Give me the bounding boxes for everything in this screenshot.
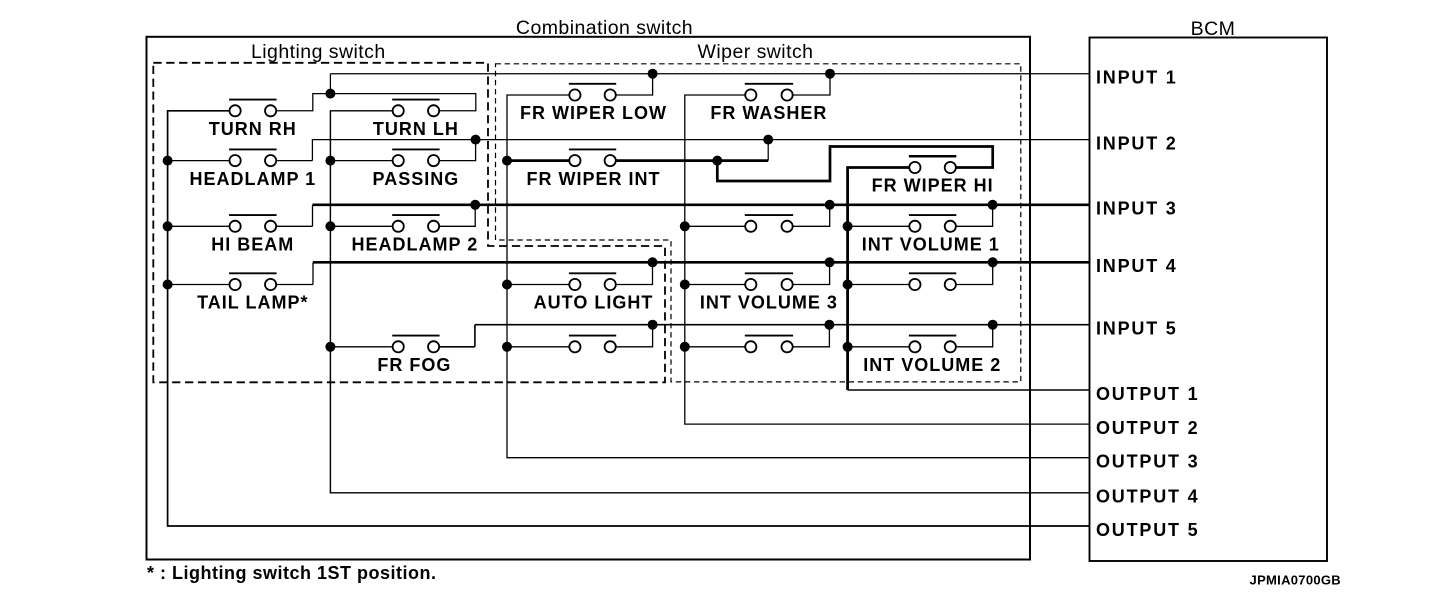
wire AUTO LIGHT leads (507, 284, 569, 286)
wire FR WASHER right lead to INPUT 1 (793, 74, 830, 95)
wire PASSING leads (330, 160, 392, 162)
switch HI BEAM (229, 215, 277, 232)
switch FR WIPER INT (569, 149, 616, 166)
svg-text:FR WIPER LOW: FR WIPER LOW (520, 103, 667, 123)
wire INPUT 3 line (313, 203, 1090, 206)
wire HEADLAMP 1 leads (168, 160, 230, 162)
svg-text:OUTPUT 3: OUTPUT 3 (1096, 452, 1199, 472)
node INT VOLUME 3 left (680, 280, 690, 290)
switch wiper col1 row5 (auto light) (569, 336, 616, 353)
wire INPUT 5 drop to FR FOG (474, 325, 476, 347)
svg-text:TURN RH: TURN RH (209, 119, 297, 139)
switch FR WASHER (745, 84, 793, 101)
wire bus to OUTPUT 4 (330, 111, 1089, 493)
wire FR FOG leads (330, 346, 392, 348)
svg-text:* : Lighting switch 1ST positi: * : Lighting switch 1ST position. (147, 563, 437, 583)
node HEADLAMP 2 left (325, 221, 335, 231)
svg-text:INPUT 5: INPUT 5 (1096, 319, 1178, 339)
Wiper switch dashed box (496, 64, 1021, 382)
node INT VOLUME 1 to INPUT 3 (988, 200, 998, 210)
wire OUTPUT 1 line (848, 389, 1090, 391)
wire INPUT 3 drop to HI BEAM (312, 205, 314, 227)
node HEADLAMP 1 left (163, 156, 173, 166)
svg-text:OUTPUT 4: OUTPUT 4 (1096, 487, 1199, 507)
node col1 row5 switch to INPUT 5 (648, 320, 658, 330)
switch AUTO LIGHT (569, 273, 616, 290)
wire bus to OUTPUT 5 (168, 111, 1090, 526)
svg-text:BCM: BCM (1191, 18, 1236, 40)
switch TURN RH (229, 100, 277, 117)
wire wiper col3 row4 switch leads (848, 284, 909, 286)
svg-text:INT VOLUME 1: INT VOLUME 1 (862, 235, 1000, 255)
node wiper col3 row4 switch left (843, 280, 853, 290)
wire link FR WIPER INT to FR WIPER HI (717, 147, 992, 182)
node TAIL LAMP left (163, 280, 173, 290)
node AUTO LIGHT left (502, 280, 512, 290)
switch TAIL LAMP* (229, 273, 277, 290)
svg-text:Combination switch: Combination switch (516, 17, 693, 39)
svg-text:HEADLAMP 2: HEADLAMP 2 (352, 235, 479, 255)
switch FR WIPER LOW (569, 84, 616, 101)
svg-text:INPUT 4: INPUT 4 (1096, 256, 1178, 276)
svg-text:INT VOLUME 2: INT VOLUME 2 (863, 355, 1001, 375)
wire wiper col2 row5 switch leads (685, 346, 745, 348)
wire FR WIPER INT rise to INPUT 2 (767, 140, 769, 161)
svg-text:FR WIPER HI: FR WIPER HI (872, 176, 994, 196)
node FR FOG left (325, 342, 335, 352)
switch HEADLAMP 1 (229, 149, 277, 166)
node on turn link / INPUT 1 (325, 89, 335, 99)
svg-text:OUTPUT 1: OUTPUT 1 (1096, 384, 1199, 404)
svg-text:FR FOG: FR FOG (377, 355, 451, 375)
node col3 row4 switch to INPUT 4 (988, 257, 998, 267)
node AUTO LIGHT to INPUT 4 (648, 257, 658, 267)
svg-text:OUTPUT 5: OUTPUT 5 (1096, 520, 1199, 540)
wire INT VOLUME 1 leads (848, 225, 909, 227)
switch FR FOG (392, 336, 439, 353)
wire wiper col2 row3 switch leads (685, 225, 745, 227)
switch INT VOLUME 3 (745, 273, 793, 290)
svg-text:Wiper switch: Wiper switch (698, 41, 814, 63)
node PASSING to INPUT 2 (471, 135, 481, 145)
wire HI BEAM leads (168, 225, 230, 227)
node FR WIPER INT left (502, 156, 512, 166)
wire INPUT 5 line (475, 324, 1090, 326)
svg-text:PASSING: PASSING (373, 169, 460, 189)
svg-text:OUTPUT 2: OUTPUT 2 (1096, 418, 1199, 438)
Lighting switch dashed box (153, 63, 665, 383)
node PASSING left (325, 156, 335, 166)
wire INPUT 4 drop to TAIL LAMP (312, 262, 314, 284)
switch wiper col3 row4 (int volume) (909, 273, 956, 290)
switch wiper col2 row5 (int volume) (745, 336, 793, 353)
node INT VOLUME 3 to INPUT 4 (825, 257, 835, 267)
node wiper col2 row3 switch left (680, 221, 690, 231)
wire bus to OUTPUT 2 (685, 95, 1090, 424)
switch INT VOLUME 2 (909, 336, 956, 353)
node INT VOLUME 2 to INPUT 5 (988, 320, 998, 330)
svg-text:JPMIA0700GB: JPMIA0700GB (1250, 573, 1341, 588)
wire TURN RH / TURN LH link (277, 94, 476, 111)
wire INPUT 2 line (312, 140, 1089, 161)
node wiper col2 row5 switch left (680, 342, 690, 352)
node HI BEAM left (163, 221, 173, 231)
switch PASSING (392, 149, 439, 166)
switch FR WIPER HI (909, 156, 956, 173)
node FR WIPER INT link junction (712, 156, 722, 166)
outer box: Combination switch enclosure (147, 37, 1031, 560)
node FR WIPER LOW to INPUT 1 (648, 69, 658, 79)
svg-text:AUTO LIGHT: AUTO LIGHT (534, 293, 654, 313)
node FR WASHER to INPUT 1 (825, 69, 835, 79)
wire TAIL LAMP leads (168, 284, 230, 286)
svg-text:INPUT 2: INPUT 2 (1096, 133, 1178, 153)
svg-text:INT VOLUME 3: INT VOLUME 3 (700, 293, 838, 313)
wire FR WIPER LOW right lead to INPUT 1 (616, 74, 652, 95)
svg-text:HI BEAM: HI BEAM (211, 235, 294, 255)
svg-text:FR WASHER: FR WASHER (710, 103, 827, 123)
svg-text:FR WIPER INT: FR WIPER INT (527, 169, 661, 189)
svg-text:INPUT 1: INPUT 1 (1096, 68, 1178, 88)
node HEADLAMP 2 to INPUT 3 (470, 200, 480, 210)
wire bus to OUTPUT 3 (507, 95, 1090, 458)
node INT VOLUME 2 left (843, 342, 853, 352)
svg-text:TAIL LAMP*: TAIL LAMP* (197, 293, 308, 313)
wire INPUT 1 line (330, 73, 1089, 75)
svg-text:Lighting switch: Lighting switch (251, 41, 386, 63)
wire INPUT 4 line (313, 261, 1090, 264)
node INT VOLUME 1 left (843, 221, 853, 231)
svg-text:TURN LH: TURN LH (373, 119, 459, 139)
switch TURN LH (392, 100, 439, 117)
switch HEADLAMP 2 (392, 215, 439, 232)
node col2 row3 switch to INPUT 3 (825, 200, 835, 210)
wire INT VOLUME 2 leads (848, 346, 909, 348)
wire wiper col1 row5 switch leads (507, 346, 569, 348)
node wiper col1 row5 switch left (502, 342, 512, 352)
BCM box (1090, 38, 1328, 562)
node FR WIPER INT to INPUT 2 (763, 135, 773, 145)
switch wiper col2 row3 (int volume) (745, 215, 793, 232)
node col2 row5 switch to INPUT 5 (824, 320, 834, 330)
svg-text:INPUT 3: INPUT 3 (1096, 199, 1178, 219)
svg-text:HEADLAMP 1: HEADLAMP 1 (189, 169, 316, 189)
wire INPUT 1 drop to turn-switch link (329, 74, 331, 94)
wire INT VOLUME 3 leads (685, 284, 745, 286)
wire HEADLAMP 2 leads (330, 225, 392, 227)
switch INT VOLUME 1 (909, 215, 956, 232)
wire bus to OUTPUT 1 (848, 168, 909, 391)
wire FR WIPER INT leads (507, 159, 569, 162)
